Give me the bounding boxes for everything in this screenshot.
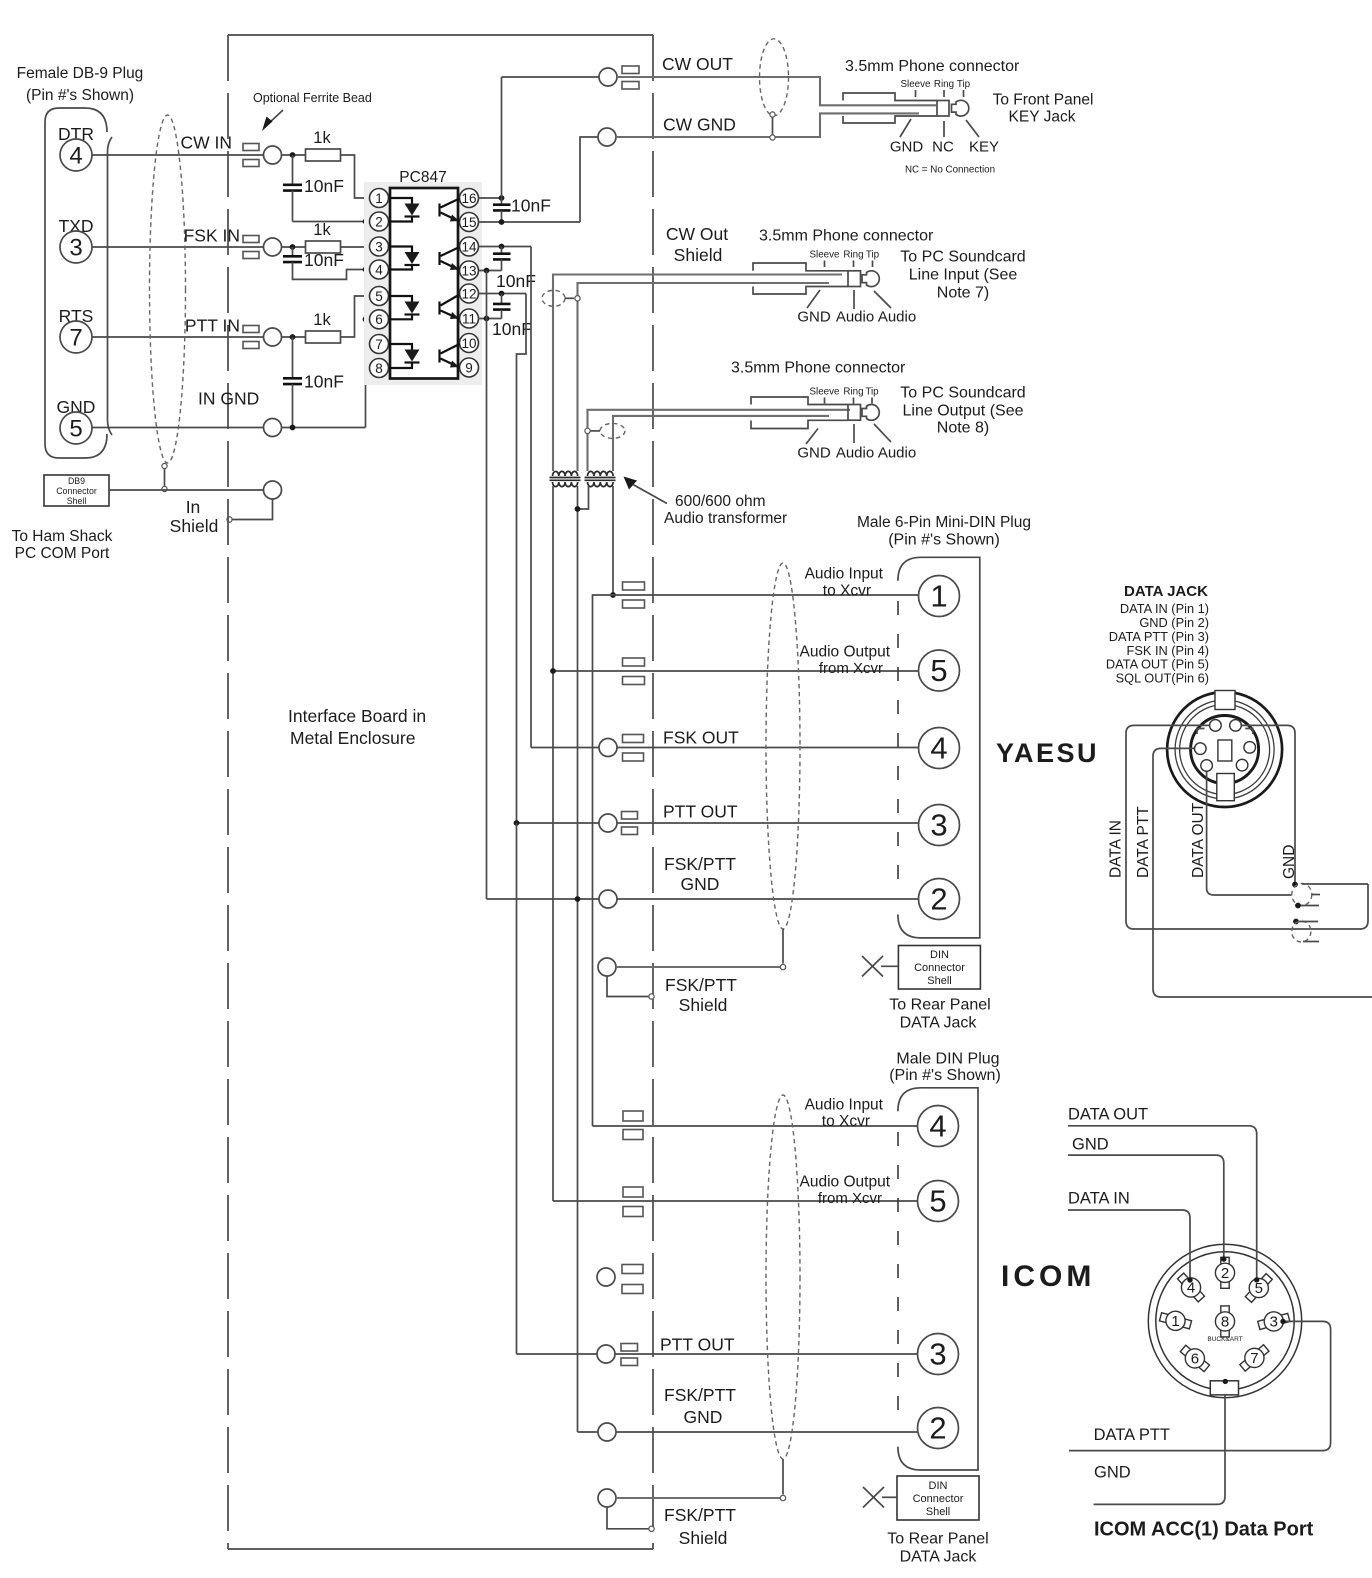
svg-text:10nF: 10nF xyxy=(304,176,344,196)
wire IN GND rail xyxy=(282,427,366,429)
U1 pin 6 xyxy=(370,310,389,329)
J3 pin 2 xyxy=(918,1408,959,1449)
wire DATA IN (jack pin to lower bus) xyxy=(1126,725,1368,929)
svg-text:Line Output (See: Line Output (See xyxy=(903,403,1024,420)
connector P1 body xyxy=(843,93,937,101)
wire CW GND riser xyxy=(580,137,598,222)
connector P2 body xyxy=(753,263,848,271)
pin 7 RTS xyxy=(60,321,92,353)
svg-text:10: 10 xyxy=(461,336,476,351)
transformer T1 (600/600 audio) xyxy=(553,471,578,476)
wire shield to enclosure (ICOM) xyxy=(607,1507,649,1529)
svg-text:GND: GND xyxy=(797,445,831,462)
jack pin bottom-right xyxy=(1236,759,1248,771)
svg-text:CW Out: CW Out xyxy=(666,224,728,244)
wire FSK/PTT Shield row xyxy=(598,958,616,976)
capacitor C4 10nF (CW out) xyxy=(501,198,503,205)
wire line-output hot (T2 to P3) xyxy=(588,410,851,471)
svg-text:SQL OUT(Pin 6): SQL OUT(Pin 6) xyxy=(1116,671,1209,686)
svg-text:2: 2 xyxy=(375,214,383,229)
U1 channel 1 phototransistor xyxy=(438,204,440,217)
no-connect X (ICOM shell) xyxy=(863,1487,884,1508)
svg-text:DIN: DIN xyxy=(929,1480,948,1492)
svg-text:DATA PTT: DATA PTT xyxy=(1135,806,1152,878)
svg-text:Note 8): Note 8) xyxy=(937,420,989,437)
svg-text:1k: 1k xyxy=(313,221,331,239)
svg-text:3: 3 xyxy=(375,239,383,254)
J4 pin 6 xyxy=(1177,1341,1213,1376)
wire T2 secondary left jog to gnd rail xyxy=(578,486,589,509)
J4 pin 3 xyxy=(1256,1308,1291,1335)
svg-text:Tip: Tip xyxy=(866,250,880,261)
svg-text:13: 13 xyxy=(461,263,476,278)
svg-text:5: 5 xyxy=(929,1184,946,1219)
J4 pin 2 xyxy=(1215,1257,1234,1288)
capacitor C6 10nF (PTT out) xyxy=(501,294,503,304)
wire T2 secondary right down to audio-in node xyxy=(612,486,614,595)
svg-text:4: 4 xyxy=(930,731,947,766)
svg-text:Shield: Shield xyxy=(679,995,728,1015)
U1 pin 8 xyxy=(370,359,389,378)
unused FSK terminal (ICOM) xyxy=(597,1268,615,1286)
svg-text:600/600 ohm: 600/600 ohm xyxy=(675,493,766,510)
svg-text:Interface Board in: Interface Board in xyxy=(288,706,426,726)
svg-text:5: 5 xyxy=(1255,1280,1263,1297)
U1 channel 4 LED xyxy=(389,344,413,350)
connector J2 YAESU mini-DIN outline xyxy=(898,557,980,938)
arrow to transformers xyxy=(624,477,638,490)
ferrite bead FB9 (ICOM audio in) xyxy=(623,1111,643,1121)
svg-text:PTT OUT: PTT OUT xyxy=(660,1335,735,1355)
svg-text:Male 6-Pin Mini-DIN Plug: Male 6-Pin Mini-DIN Plug xyxy=(857,514,1031,531)
svg-text:DATA PTT (Pin 3): DATA PTT (Pin 3) xyxy=(1109,629,1209,644)
ferrite bead FB6 (audio out) xyxy=(623,658,645,666)
wire FSK IN node xyxy=(282,246,306,248)
U1 channel 2 LED xyxy=(389,247,413,253)
svg-text:5: 5 xyxy=(375,289,383,304)
wire In Shield to enclosure xyxy=(232,499,273,520)
pin 5 GND xyxy=(60,412,92,444)
wire DATA PTT from ACC pin3 xyxy=(1069,1321,1331,1450)
svg-text:1: 1 xyxy=(930,579,947,614)
J2 pin 5 xyxy=(919,650,960,691)
wire GND from ACC bottom notch xyxy=(1094,1395,1225,1505)
J2 pin 1 xyxy=(919,576,960,617)
svg-text:10nF: 10nF xyxy=(304,250,344,270)
cable ellipse YAESU xyxy=(766,563,800,929)
svg-text:3: 3 xyxy=(929,1337,946,1372)
wire stub to pin6 xyxy=(366,318,370,320)
svg-text:DATA JACK: DATA JACK xyxy=(1124,583,1208,600)
svg-text:Optional Ferrite Bead: Optional Ferrite Bead xyxy=(253,91,372,105)
cable ellipse ICOM xyxy=(766,1095,800,1459)
svg-text:Shell: Shell xyxy=(927,975,951,987)
connector P2 tip xyxy=(862,271,879,287)
U1 pin 4 xyxy=(370,260,389,279)
U1 pin 2 xyxy=(370,212,389,231)
terminal CW OUT xyxy=(599,68,617,86)
U1 pin 7 xyxy=(370,335,389,354)
svg-text:10nF: 10nF xyxy=(304,372,344,392)
svg-text:16: 16 xyxy=(461,191,476,206)
svg-text:ICOM ACC(1) Data Port: ICOM ACC(1) Data Port xyxy=(1094,1519,1314,1541)
connector J4 ICOM ACC outer circle xyxy=(1148,1244,1301,1397)
svg-text:Ring: Ring xyxy=(843,250,863,261)
wire DATA PTT (jack pin to right edge) xyxy=(1153,748,1372,997)
mini-DIN6 top notch xyxy=(1215,691,1235,710)
U1 channel 1 LED xyxy=(389,198,413,204)
svg-text:Audio: Audio xyxy=(878,445,916,462)
svg-text:PTT OUT: PTT OUT xyxy=(663,802,738,822)
svg-text:GND: GND xyxy=(890,139,924,156)
svg-text:Audio Output: Audio Output xyxy=(800,644,891,661)
svg-text:2: 2 xyxy=(1221,1265,1229,1282)
svg-text:from Xcvr: from Xcvr xyxy=(818,1190,882,1207)
P3 labels GND Audio Audio xyxy=(806,429,818,445)
wire RTS to PTT IN terminal xyxy=(92,336,264,338)
terminal IN GND xyxy=(264,419,282,437)
jack pin mid-left xyxy=(1195,743,1207,755)
jack pin bottom-left xyxy=(1201,760,1213,772)
svg-text:Sleeve: Sleeve xyxy=(810,250,841,261)
J3 pin 3 xyxy=(918,1334,959,1375)
svg-text:(Pin #'s Shown): (Pin #'s Shown) xyxy=(888,532,1000,549)
J2 pin 2 xyxy=(919,879,960,920)
svg-text:DATA PTT: DATA PTT xyxy=(1094,1426,1170,1444)
wire PTT OUT row to ICOM pin3 xyxy=(516,823,518,1354)
svg-text:GND (Pin 2): GND (Pin 2) xyxy=(1139,615,1209,630)
jack pin top-left xyxy=(1210,720,1222,732)
jack pin mid-right xyxy=(1244,742,1256,754)
svg-text:DATA IN: DATA IN xyxy=(1068,1190,1130,1208)
U1 pin 14 xyxy=(460,237,479,256)
wire R3 to pin5 xyxy=(341,296,370,337)
wire pin15 to CW GND riser xyxy=(479,221,581,223)
svg-text:IN GND: IN GND xyxy=(198,389,259,409)
U1 pin 9 xyxy=(460,358,479,377)
U1 pin 11 xyxy=(460,309,479,328)
wire shield to enclosure (YAESU) xyxy=(607,976,649,997)
svg-text:PC COM Port: PC COM Port xyxy=(15,545,110,562)
connector J1 DB9 inner face line xyxy=(108,137,113,435)
wire R2 to pin3 xyxy=(341,246,370,248)
svg-text:DIN: DIN xyxy=(930,949,949,961)
ferrite bead FB1 (CW IN) xyxy=(243,144,259,151)
svg-text:Line Input (See: Line Input (See xyxy=(909,267,1018,284)
svg-text:CW GND: CW GND xyxy=(663,115,736,135)
svg-text:To Rear Panel: To Rear Panel xyxy=(887,1531,988,1548)
mini-DIN6 inner shield circle xyxy=(1191,716,1259,784)
shield tail YAESU xyxy=(782,929,784,964)
U1 pin 13 xyxy=(460,261,479,280)
transformer T2 (600/600 audio) xyxy=(588,471,614,476)
connector P3 ring xyxy=(848,405,861,421)
svg-text:Ring: Ring xyxy=(934,79,954,90)
wire audio input row to YAESU pin1 (and ICOM riser) xyxy=(593,595,919,1126)
ferrite bead FB7 (FSK out) xyxy=(623,735,644,743)
ferrite bead FB12 (ICOM PTT) xyxy=(621,1344,638,1352)
wire pin11 node xyxy=(479,318,502,320)
J4 pin 4 xyxy=(1173,1270,1208,1306)
no-connect X (YAESU shell) xyxy=(862,956,883,977)
svg-text:FSK/PTT: FSK/PTT xyxy=(664,854,736,874)
P2 labels GND Audio Audio xyxy=(807,290,820,308)
DIN connector shell box (ICOM) xyxy=(897,1476,979,1520)
shield ellipse P3 cable xyxy=(600,423,625,438)
shield pigtail CW xyxy=(770,112,775,117)
svg-text:ICOM: ICOM xyxy=(1001,1260,1095,1293)
U1 body xyxy=(390,188,458,379)
wire DATA IN to ACC pin4 xyxy=(1068,1210,1190,1280)
svg-text:Audio: Audio xyxy=(878,309,916,326)
wire CW OUT to plug xyxy=(617,77,936,105)
svg-text:7: 7 xyxy=(375,337,383,352)
svg-text:4: 4 xyxy=(69,143,82,170)
U1 channel 3 phototransistor xyxy=(438,302,440,315)
wire CW IN node xyxy=(282,154,306,156)
svg-text:Shell: Shell xyxy=(67,496,87,506)
svg-text:GND: GND xyxy=(684,1407,723,1427)
wire audio output row to ICOM pin5 xyxy=(553,1200,919,1202)
wire pin14 node xyxy=(479,246,532,248)
svg-text:DATA IN: DATA IN xyxy=(1108,820,1125,878)
jack pin top-right xyxy=(1230,720,1242,732)
svg-text:8: 8 xyxy=(1221,1314,1229,1331)
svg-text:6: 6 xyxy=(1191,1351,1199,1368)
U1 channel 3 LED xyxy=(389,296,413,302)
svg-text:PTT IN: PTT IN xyxy=(185,316,240,336)
DIN connector shell box (YAESU) xyxy=(898,946,980,990)
svg-text:Sleeve: Sleeve xyxy=(901,79,932,90)
svg-text:Audio Output: Audio Output xyxy=(800,1174,891,1191)
svg-text:6: 6 xyxy=(375,312,383,327)
J3 pin 5 xyxy=(918,1181,959,1222)
U1 pin 1 xyxy=(370,189,389,208)
J4 inner circle xyxy=(1156,1252,1294,1390)
ferrite bead FB11 (unused) xyxy=(622,1265,643,1274)
wire CW OUT riser xyxy=(501,77,503,198)
svg-text:5: 5 xyxy=(930,653,947,688)
svg-text:GND: GND xyxy=(1072,1136,1109,1154)
svg-text:Connector: Connector xyxy=(56,486,97,496)
svg-text:(Pin #'s Shown): (Pin #'s Shown) xyxy=(889,1067,1001,1084)
svg-text:Connector: Connector xyxy=(914,962,965,974)
svg-text:PC847: PC847 xyxy=(399,169,446,186)
svg-text:DATA OUT: DATA OUT xyxy=(1190,802,1207,878)
wire PTT IN node xyxy=(282,336,306,338)
connector P2 ring xyxy=(848,271,861,287)
U1 pin 3 xyxy=(370,237,389,256)
svg-text:2: 2 xyxy=(929,1411,946,1446)
J4 pin 8 (center) xyxy=(1215,1306,1234,1337)
U1 channel 2 phototransistor xyxy=(438,252,440,265)
ferrite bead FB5 (audio in) xyxy=(623,582,645,590)
svg-text:To Rear Panel: To Rear Panel xyxy=(889,997,990,1014)
svg-text:DB9: DB9 xyxy=(68,476,85,486)
svg-text:FSK IN: FSK IN xyxy=(184,226,240,246)
J2 mating face dashed xyxy=(897,601,899,897)
mini-DIN6 bottom key slot xyxy=(1217,774,1235,801)
svg-text:Female DB-9 Plug: Female DB-9 Plug xyxy=(17,65,144,82)
svg-text:Shield: Shield xyxy=(679,1528,728,1548)
ferrite bead FB8 (PTT out) xyxy=(622,812,638,820)
svg-text:Audio Input: Audio Input xyxy=(805,1097,884,1114)
wire FSK/PTT GND row to ICOM pin2 xyxy=(578,1431,599,1433)
J3 mating face dashed xyxy=(897,1132,899,1429)
terminal PTT IN xyxy=(264,328,282,346)
svg-text:FSK/PTT: FSK/PTT xyxy=(664,1385,736,1405)
svg-text:10nF: 10nF xyxy=(511,196,551,216)
svg-text:GND: GND xyxy=(681,874,720,894)
svg-text:10nF: 10nF xyxy=(496,271,536,291)
capacitor C5 10nF (FSK out) xyxy=(501,247,503,254)
svg-text:Metal Enclosure: Metal Enclosure xyxy=(290,728,415,748)
ferrite bead FB10 (ICOM audio out) xyxy=(623,1187,643,1197)
svg-text:Connector: Connector xyxy=(913,1493,964,1505)
wire PTT riser pin12 down with jog xyxy=(517,294,527,824)
svg-text:FSK OUT: FSK OUT xyxy=(663,728,739,748)
wire PTT OUT row xyxy=(517,822,600,824)
svg-text:GND: GND xyxy=(797,309,831,326)
svg-text:Tip: Tip xyxy=(957,79,971,90)
svg-text:KEY: KEY xyxy=(969,139,999,156)
svg-text:CW IN: CW IN xyxy=(180,133,232,153)
cable ellipse CW pair xyxy=(760,39,789,116)
svg-text:3: 3 xyxy=(69,235,82,262)
J2 pin 4 xyxy=(919,728,960,769)
wire pin12 node xyxy=(479,293,527,295)
U1 pin 5 xyxy=(370,287,389,306)
svg-text:8: 8 xyxy=(375,361,383,376)
svg-text:Shell: Shell xyxy=(926,1506,950,1518)
ferrite bead FB2 (FSK IN) xyxy=(243,236,259,243)
J4 bottom key notch xyxy=(1210,1381,1238,1395)
svg-text:9: 9 xyxy=(465,360,473,375)
op-to-coupler U1 PC847 halo xyxy=(364,182,482,385)
svg-text:DATA OUT (Pin 5): DATA OUT (Pin 5) xyxy=(1106,657,1209,672)
svg-text:DATA IN (Pin 1): DATA IN (Pin 1) xyxy=(1120,601,1209,616)
wire FSK riser pin14 down xyxy=(530,247,532,748)
svg-text:KEY Jack: KEY Jack xyxy=(1009,109,1076,126)
wire shell to In Shield terminal xyxy=(109,489,264,491)
svg-text:FSK/PTT: FSK/PTT xyxy=(665,975,737,995)
svg-text:GND: GND xyxy=(1094,1464,1131,1482)
svg-text:Shield: Shield xyxy=(170,516,219,536)
svg-text:NC: NC xyxy=(932,139,954,156)
wire R1 to pin1 xyxy=(341,155,370,198)
wire C1 to pin2 xyxy=(293,221,370,223)
svg-text:DATA OUT: DATA OUT xyxy=(1068,1106,1148,1124)
svg-text:3.5mm Phone connector: 3.5mm Phone connector xyxy=(845,58,1020,75)
wire line-input hot (transformer T1 to P2) xyxy=(553,275,842,472)
U1 pin 15 xyxy=(460,213,479,232)
wire GND to IN GND terminal xyxy=(92,427,264,429)
svg-text:To Front Panel: To Front Panel xyxy=(993,92,1094,109)
wire DATA OUT (jack pin down to pigtail) xyxy=(1207,771,1292,895)
svg-text:15: 15 xyxy=(461,215,476,230)
J2 pin 3 xyxy=(919,805,960,846)
cable bundle ellipse (serial cable) xyxy=(150,115,186,463)
svg-text:4: 4 xyxy=(375,262,383,277)
ferrite bead FB3 (PTT IN) xyxy=(243,326,259,333)
svg-text:3.5mm Phone connector: 3.5mm Phone connector xyxy=(759,228,934,245)
svg-text:7: 7 xyxy=(1250,1350,1258,1367)
U1 pin 16 xyxy=(460,189,479,208)
wire line-output gnd (T2 to P3) xyxy=(613,416,829,471)
pin 4 DTR xyxy=(60,139,92,171)
svg-text:14: 14 xyxy=(461,239,477,254)
wire T1 secondary right down (audio gnd rail) xyxy=(577,486,579,1432)
svg-text:1: 1 xyxy=(1171,1313,1179,1330)
enclosure (Interface Board in Metal Enclosure) xyxy=(227,35,229,1549)
cable shield pigtail xyxy=(162,463,167,468)
svg-text:DATA Jack: DATA Jack xyxy=(900,1549,978,1566)
svg-text:To Ham Shack: To Ham Shack xyxy=(12,528,113,545)
shield ellipse P2 cable xyxy=(542,290,565,306)
terminal CW IN xyxy=(264,146,282,164)
wire T1 secondary left down (audio out rail) xyxy=(552,486,554,1201)
connector P3 tip xyxy=(862,405,879,421)
J4 pin 1 xyxy=(1158,1308,1193,1335)
svg-text:Note 7): Note 7) xyxy=(937,285,989,302)
svg-text:Audio Input: Audio Input xyxy=(805,566,884,583)
wire FSK/PTT Shield row (ICOM) xyxy=(598,1489,616,1507)
wire line-input gnd (T1 to P2) xyxy=(578,283,830,471)
capacitor C3 10nF xyxy=(292,337,294,378)
svg-text:FSK/PTT: FSK/PTT xyxy=(664,1505,736,1525)
svg-text:Audio: Audio xyxy=(836,445,874,462)
svg-text:In: In xyxy=(186,497,201,517)
wire GND riser to pin2 xyxy=(365,222,367,428)
capacitor C1 10nF xyxy=(292,155,294,184)
mini-DIN6 shield slot marks xyxy=(1197,729,1205,735)
U1 pin 10 xyxy=(460,334,479,353)
svg-text:Ring: Ring xyxy=(843,387,863,398)
J4 pin 5 xyxy=(1241,1270,1276,1306)
svg-text:Shield: Shield xyxy=(674,245,723,265)
svg-text:To PC Soundcard: To PC Soundcard xyxy=(900,249,1025,266)
svg-text:To PC Soundcard: To PC Soundcard xyxy=(900,385,1025,402)
wire audio input row to ICOM pin4 xyxy=(593,1125,919,1127)
svg-text:5: 5 xyxy=(69,416,82,443)
wire pin13 node xyxy=(479,270,502,272)
mini-DIN6 socket outer ring xyxy=(1167,692,1282,807)
svg-text:1: 1 xyxy=(375,191,383,206)
wire FSK OUT row xyxy=(531,747,599,749)
ferrite bead FB4 (CW OUT) xyxy=(622,66,639,74)
DB9 connector shell box xyxy=(44,475,109,506)
J3 pin 4 xyxy=(918,1106,959,1147)
terminal FSK IN xyxy=(264,238,282,256)
terminal In Shield xyxy=(264,481,282,499)
shield tail ICOM xyxy=(782,1459,784,1495)
svg-text:(Pin #'s Shown): (Pin #'s Shown) xyxy=(26,87,134,104)
svg-text:3: 3 xyxy=(1270,1314,1278,1331)
wire FSK/PTT GND row xyxy=(487,898,600,900)
connector J3 ICOM DIN outline xyxy=(898,1088,978,1470)
wire DTR to CW IN terminal xyxy=(92,154,264,156)
svg-text:to Xcvr: to Xcvr xyxy=(823,583,871,600)
U1 pin 12 xyxy=(460,284,479,303)
wire GND to ACC pin2 xyxy=(1068,1155,1224,1259)
svg-text:DATA Jack: DATA Jack xyxy=(900,1015,978,1032)
svg-text:4: 4 xyxy=(929,1109,946,1144)
svg-text:1k: 1k xyxy=(313,129,331,147)
connector P1 ring xyxy=(937,101,949,117)
svg-text:3: 3 xyxy=(930,808,947,843)
wire audio output row to YAESU pin5 xyxy=(553,670,919,672)
wire CW GND to plug xyxy=(616,113,919,137)
